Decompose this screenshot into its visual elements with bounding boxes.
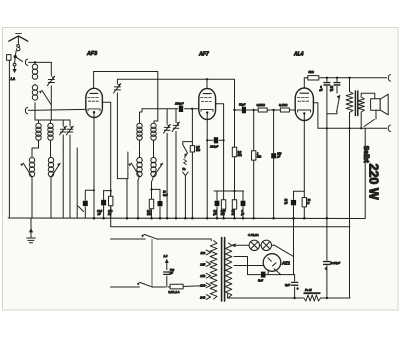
node AF3 bottom junction: [93, 189, 95, 191]
wire AZ1 fil left: [234, 257, 295, 275]
tube AL4 envelope: [295, 88, 313, 121]
svg-text:100pF: 100pF: [210, 145, 218, 149]
wire AZ1 anode: [234, 265, 263, 267]
cap C20 5nF: [261, 272, 266, 278]
node chain234: [233, 109, 235, 111]
arrow LA: [13, 69, 17, 73]
coil L8: [151, 123, 156, 128]
coil L10: [151, 158, 156, 163]
svg-text:Seibt: Seibt: [362, 146, 369, 164]
node bus 273.6: [272, 217, 275, 220]
svg-text:125: 125: [200, 262, 205, 266]
tube AF3 grid dashes 2: [88, 100, 98, 102]
svg-text:μF: μF: [169, 271, 173, 275]
wire L5 down: [31, 177, 33, 218]
cap C14 50pF: [242, 107, 246, 114]
wire bf1 left stub: [32, 120, 39, 157]
trimmer C1 plates: [48, 79, 54, 81]
speaker switch: [364, 119, 374, 126]
node bus 253.7: [252, 217, 255, 220]
switch blade S12: [140, 282, 153, 287]
svg-text:AZ1: AZ1: [281, 260, 291, 265]
svg-text:220: 220: [199, 284, 205, 288]
node bus 243.0: [242, 217, 245, 220]
svg-text:Ω: Ω: [307, 201, 309, 205]
wire anode col to B+: [110, 191, 112, 227]
node bus 160.0: [159, 217, 162, 220]
node bus 94.0: [93, 217, 96, 220]
contact hook S1: [25, 59, 27, 65]
svg-text:kΩ: kΩ: [232, 213, 235, 216]
trimmer C3: [69, 120, 71, 145]
svg-text:μF: μF: [240, 213, 244, 216]
resistor R5: [234, 191, 236, 218]
cap C11 100pF: [207, 139, 223, 141]
resistor R11 50ohm: [308, 76, 319, 80]
jack hook TA: [183, 172, 189, 218]
transformer core bars: [222, 238, 225, 302]
contact hook S3: [25, 107, 27, 113]
resistor R1 box: [109, 196, 113, 206]
node bus 234.5: [233, 217, 236, 220]
tube AF3 grid dashes: [88, 96, 99, 98]
arrow pilot: [165, 259, 169, 263]
svg-text:μF: μF: [212, 213, 216, 216]
tap 240: [206, 295, 210, 300]
wire AL4 bottom: [303, 114, 305, 191]
wire ground bus: [8, 217, 364, 220]
coil L1: [32, 64, 37, 69]
antenna jack: [17, 45, 20, 48]
tap 110: [206, 250, 210, 255]
svg-text:5nF: 5nF: [163, 193, 168, 197]
wire AZ1 fil diag: [274, 269, 281, 275]
svg-text:MΩ: MΩ: [147, 212, 151, 216]
svg-text:5nF: 5nF: [258, 279, 263, 283]
coil L3: [36, 123, 41, 128]
coil L7: [137, 123, 142, 128]
wire: [15, 51, 16, 57]
trimmer C6 plates: [114, 86, 120, 88]
wire mains L2: [111, 286, 207, 287]
wire grid line T2: [142, 108, 199, 110]
node bus 176.0: [175, 217, 178, 220]
wire trim cols down: [63, 145, 70, 218]
switch blade S11: [144, 234, 157, 239]
node bus 127.0: [126, 217, 129, 220]
node bus 304.3: [303, 217, 306, 220]
switch blade S2: [42, 91, 51, 105]
svg-text:8μF: 8μF: [285, 283, 290, 287]
node mid RC: [150, 188, 152, 190]
svg-text:0,5MΩ: 0,5MΩ: [257, 103, 266, 107]
coil L2: [32, 85, 37, 90]
resistor R9: [253, 110, 255, 218]
wire rail A: [94, 72, 158, 124]
cap C12: [216, 191, 218, 218]
coil L5: [29, 158, 34, 163]
svg-text:0,6/1,2 A: 0,6/1,2 A: [168, 290, 179, 294]
resistor R2: [151, 209, 153, 218]
terminal hook right top: [388, 75, 390, 82]
svg-text:110: 110: [200, 251, 205, 255]
pilot cap C19: [166, 263, 168, 287]
wire mid bf left col: [140, 109, 143, 123]
wire trim column: [50, 62, 52, 120]
svg-text:Fe M: Fe M: [305, 288, 312, 292]
resistor R7: [258, 108, 267, 112]
cap C5: [103, 191, 105, 218]
svg-text:pF: pF: [276, 155, 280, 159]
node bus 151.5: [150, 217, 153, 220]
node rail 337: [336, 77, 338, 79]
trimmer C8: [175, 109, 177, 218]
coil L4: [48, 123, 53, 128]
tube AL4 cathode: [298, 110, 311, 112]
tube AF7 cathode dot: [206, 111, 208, 113]
cap C13: [242, 191, 244, 218]
tube AF7 anode bar: [203, 93, 211, 95]
node br326: [326, 127, 328, 129]
node bus 293.5: [292, 217, 295, 220]
node anode-RC junction: [110, 190, 112, 192]
cap C10 100pF: [179, 106, 183, 112]
svg-text:nF: nF: [330, 88, 333, 92]
svg-text:100pF: 100pF: [175, 102, 184, 106]
svg-text:kΩ: kΩ: [108, 212, 111, 216]
wire antenna coil column: [34, 62, 36, 120]
wire B+ column 293: [293, 219, 295, 275]
wire trim col x117: [116, 79, 118, 178]
svg-text:0,1MΩ: 0,1MΩ: [279, 103, 288, 107]
cap C16: [293, 191, 295, 218]
switch gang link: [151, 239, 153, 287]
node br361: [360, 127, 362, 129]
wire bottom line: [228, 297, 350, 299]
choke primary: [349, 78, 351, 92]
wire mains L1: [111, 239, 212, 241]
cap C18 10nF: [336, 78, 338, 93]
wire col326 down: [326, 114, 328, 219]
wire col77: [76, 148, 78, 218]
wire AF3 anode right: [102, 102, 110, 190]
tube AZ1: [263, 254, 281, 272]
wire grid W2: [29, 109, 86, 110]
resistor R6: [234, 140, 236, 191]
switch blade S5: [51, 163, 60, 177]
switch blade S10: [337, 95, 340, 111]
trimmer C6 arrow: [113, 84, 120, 93]
wire mid RC tie: [152, 189, 161, 200]
svg-text:50Ω: 50Ω: [308, 70, 314, 74]
tap 150: [206, 273, 210, 278]
wire left column: [8, 60, 10, 218]
wire L7-L9: [140, 140, 154, 157]
node br349: [348, 127, 350, 129]
wire heater line: [232, 244, 275, 246]
wire heater diag: [275, 245, 294, 256]
svg-text:nF: nF: [284, 201, 287, 205]
wire W1: [29, 61, 52, 63]
cap C9: [159, 207, 161, 218]
switch arm S6: [78, 206, 84, 212]
cap C21 8uF: [294, 275, 296, 298]
arrow heater: [231, 243, 236, 247]
tap 125: [206, 262, 210, 267]
wire k3 tie: [294, 190, 305, 192]
wire line191: [214, 190, 244, 192]
svg-text:LA: LA: [11, 77, 16, 81]
node antenna junction: [14, 55, 17, 58]
resistor R4: [223, 191, 225, 218]
secondary winding: [358, 97, 364, 112]
resistor R3: [190, 146, 194, 152]
node bus 192.4: [191, 217, 194, 220]
node bus 138.0: [137, 217, 140, 220]
tube AF7 grid dashes 2: [201, 100, 211, 102]
svg-text:MΩ: MΩ: [221, 213, 225, 216]
svg-text:AF3: AF3: [86, 51, 97, 57]
cap C15: [273, 110, 275, 218]
wire AF3 bottom: [93, 113, 95, 218]
wire AL4 top: [304, 78, 306, 88]
tube AF7 grid dashes: [201, 97, 212, 99]
node bus 185.4: [184, 217, 187, 220]
fuse F1: [170, 284, 183, 289]
wire tie top: [35, 119, 70, 121]
cap C22 2x16uF: [326, 219, 328, 299]
switch blade S4: [23, 163, 32, 177]
node bus 223.6: [222, 217, 225, 220]
node AF7 rail: [206, 78, 208, 80]
svg-text:1,6: 1,6: [163, 254, 167, 258]
node bl294: [293, 297, 295, 299]
tube AF7 cathode: [201, 109, 213, 111]
node bus 217.0: [216, 217, 219, 220]
svg-text:4 K0,3A: 4 K0,3A: [248, 233, 259, 237]
svg-text:nF: nF: [98, 212, 101, 216]
wire antenna to contact: [15, 57, 22, 62]
node bus 167.1: [166, 217, 169, 220]
wire TA tie: [183, 142, 193, 145]
node a2 140: [223, 139, 225, 141]
node bus 103.6: [102, 217, 105, 220]
wire AF3 top: [93, 72, 95, 89]
tube AL4 cathode dot: [303, 112, 305, 114]
node b191: [233, 190, 235, 192]
wire LA lead: [14, 57, 17, 64]
wire chain: [235, 109, 296, 111]
switch blade S9: [183, 145, 188, 153]
svg-text:MΩ: MΩ: [196, 149, 200, 152]
resistor R1: [110, 191, 112, 218]
tube AF7 envelope: [199, 89, 216, 120]
wire rail B: [117, 79, 234, 218]
wire bottom right rail: [318, 127, 387, 129]
trimmer C1 arrow: [47, 76, 54, 85]
node bus 207.2: [206, 217, 209, 220]
svg-text:240: 240: [199, 295, 205, 299]
resistor R10: [303, 191, 305, 218]
wire tone tie: [327, 112, 337, 114]
wire AF7 top: [206, 79, 208, 88]
svg-text:220 W: 220 W: [367, 164, 381, 200]
node bl327: [326, 297, 328, 299]
ground symbol: [30, 218, 32, 238]
tube AF3 envelope: [86, 88, 103, 117]
transformer primary: [210, 241, 217, 299]
transformer secondary: [225, 243, 231, 298]
anode RC tie: [104, 190, 111, 192]
tube AF3 anode bar: [90, 92, 98, 94]
trimmer C2: [62, 120, 64, 145]
wire bf1 right stub: [50, 120, 52, 158]
svg-text:AL4: AL4: [293, 52, 304, 58]
lamp LP2: [261, 240, 271, 250]
svg-text:nF: nF: [319, 88, 322, 92]
zigzag mark: [184, 159, 187, 164]
tube AL4 grid dashes 2: [298, 100, 309, 102]
wire speaker down: [375, 110, 377, 119]
coil L6: [48, 158, 53, 163]
speaker: [371, 99, 381, 110]
node grid junction: [191, 108, 193, 110]
node W1-coil: [34, 61, 36, 63]
resistor R8: [280, 108, 289, 112]
wire col365: [364, 128, 365, 218]
resistor R12 field coil: [304, 292, 320, 294]
svg-text:Ta: Ta: [182, 167, 186, 171]
wire L6 down: [50, 177, 52, 218]
wire AZ1 fil bottom: [267, 270, 269, 275]
wire col x127: [127, 152, 129, 179]
switch blade S7: [131, 163, 139, 176]
node bus 326.9: [326, 217, 329, 220]
tube AL4 grid dashes: [297, 96, 308, 98]
wire tie bar 178: [117, 179, 128, 218]
wire sec bottom: [227, 294, 229, 298]
tube AF3 cathode: [88, 109, 100, 111]
wire L9 L10 down: [138, 177, 154, 218]
cap C17 5nF: [326, 78, 328, 114]
node rail 349: [348, 77, 350, 79]
cathode cap C4: [85, 190, 94, 218]
svg-text:50pF: 50pF: [239, 103, 246, 107]
node chain273: [272, 109, 274, 111]
svg-text:2x16μF: 2x16μF: [329, 261, 340, 265]
svg-text:+: +: [325, 267, 327, 271]
tube AL4 anode bar: [300, 92, 309, 94]
wire grid leak column: [191, 109, 193, 218]
trimmer C7: [166, 109, 168, 218]
wire rail C: [307, 77, 387, 79]
wire B+ rail: [111, 226, 350, 228]
svg-text:AF7: AF7: [198, 51, 210, 57]
tap 220: [206, 283, 210, 288]
node chain253: [253, 109, 255, 111]
tube AF3 cathode dot: [93, 111, 95, 113]
node rail 326: [326, 77, 328, 79]
svg-text:150: 150: [200, 274, 205, 278]
svg-text:+: +: [297, 287, 299, 291]
node k2 140: [206, 139, 208, 141]
antenna A: [9, 36, 28, 41]
svg-text:MΩ: MΩ: [257, 155, 261, 159]
terminal hook right bottom: [388, 125, 390, 132]
switch blade S8: [154, 163, 163, 176]
wire AL4 anode side: [313, 103, 318, 129]
wire AF7 anode: [216, 104, 224, 191]
coil L9: [137, 158, 142, 163]
transformer core: [355, 91, 357, 116]
terminal box E: [7, 55, 11, 61]
svg-text:MΩ: MΩ: [238, 153, 242, 157]
lamp LP1: [249, 240, 259, 250]
wire AF7 cathode down: [206, 113, 208, 218]
